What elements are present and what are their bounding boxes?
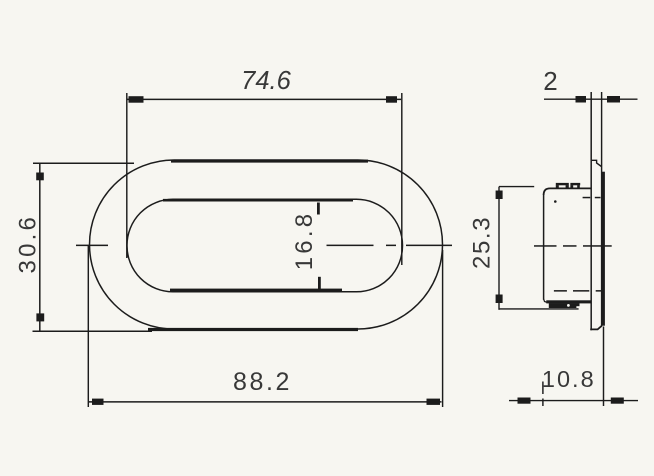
inner oval bottom thick edge: [170, 289, 342, 292]
inner oval top thick edge: [163, 199, 353, 202]
dimension 10.8: [509, 400, 638, 402]
dimension 25.3: [499, 187, 579, 310]
side view: bottom hatch block: [549, 303, 580, 308]
dimension 30.6: [33, 163, 153, 332]
inner oval (front view hole outline): [127, 199, 403, 291]
side view: flange left face + extension of dim 2: [590, 92, 592, 330]
outer oval (front view flange outline): [90, 160, 443, 329]
side view: top hatch marks: [556, 183, 580, 189]
side view: hidden line top: [583, 197, 601, 199]
outer oval top thick edge: [171, 160, 368, 163]
svg-text:2: 2: [543, 66, 557, 96]
dimension 88.2: [88, 246, 442, 407]
svg-text:30.6: 30.6: [14, 214, 41, 274]
svg-text:74.6: 74.6: [241, 67, 291, 95]
svg-text:88.2: 88.2: [233, 368, 292, 396]
side view: centerline: [534, 245, 612, 247]
side view: thick back edge bar: [602, 172, 605, 326]
side view: body speck: [554, 200, 557, 203]
side view: body top edge: [544, 188, 591, 195]
side view: flange top edge with chamfer: [591, 160, 602, 166]
dimension 74.6: [127, 93, 402, 265]
dimension 2: [544, 98, 638, 100]
svg-text:16.8: 16.8: [291, 211, 318, 271]
side view: body bottom thick edge: [546, 300, 591, 303]
side view: lower extension to 10.8: [603, 327, 605, 407]
side view: body left face: [543, 195, 545, 300]
outer oval bottom thick edge: [148, 328, 358, 331]
svg-text:10.8: 10.8: [542, 366, 596, 392]
front view horizontal centerline: [76, 245, 452, 247]
side view: hidden line bottom: [554, 290, 601, 292]
dimension 16.8: [317, 203, 320, 215]
side view: flange right face line: [601, 92, 603, 327]
svg-text:25.3: 25.3: [469, 216, 496, 269]
side view: flange bottom edge with step: [590, 326, 601, 330]
